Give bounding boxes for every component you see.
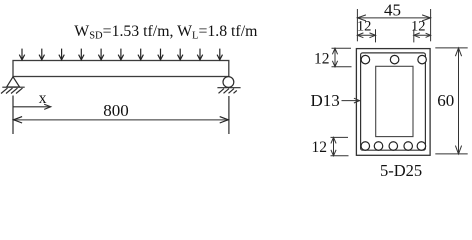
12 bottom-left vertical dim — [331, 137, 349, 155]
core rectangle (cover lines) — [376, 66, 413, 136]
extension line left — [12, 96, 14, 135]
distributed load arrows — [19, 49, 222, 60]
roller support (right) — [217, 77, 240, 94]
svg-text:60: 60 — [437, 91, 454, 110]
svg-text:5-D25: 5-D25 — [380, 161, 422, 180]
x axis arrow — [13, 104, 51, 109]
12 left cover dim — [357, 29, 375, 42]
span dimension line 800 — [14, 117, 229, 123]
svg-text:800: 800 — [103, 101, 129, 120]
beam — [13, 61, 229, 77]
45 dimension (top width) — [357, 9, 430, 41]
60 dimension (right height) — [435, 48, 467, 154]
extension line right — [228, 96, 230, 134]
section outline — [356, 49, 430, 156]
stirrup D13 — [361, 53, 426, 150]
svg-text:12: 12 — [312, 139, 328, 156]
svg-text:45: 45 — [384, 0, 401, 19]
svg-text:12: 12 — [314, 51, 330, 68]
svg-text:WSD=1.53 tf/m, WL=1.8 tf/m: WSD=1.53 tf/m, WL=1.8 tf/m — [74, 23, 258, 42]
bottom bars (5) 5-D25 — [361, 142, 426, 151]
svg-text:12: 12 — [357, 19, 372, 35]
svg-text:x: x — [39, 90, 47, 107]
pin support (left) — [1, 77, 25, 94]
12 top-left vertical dim — [332, 48, 352, 67]
svg-text:12: 12 — [411, 19, 426, 35]
D13 leader arrow — [342, 98, 360, 103]
top bars (3) — [361, 55, 426, 64]
svg-text:D13: D13 — [311, 91, 340, 110]
12 right cover dim — [414, 29, 431, 42]
